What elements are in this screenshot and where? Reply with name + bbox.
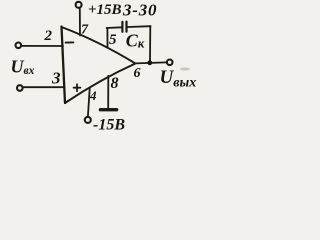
minus sign inverting input (66, 41, 74, 43)
ground bar (100, 108, 116, 111)
wire output pin 6 (135, 62, 166, 63)
op-amp U1 triangle top edge (62, 27, 136, 64)
svg-text:4: 4 (89, 88, 97, 103)
capacitor CK right leg to output (149, 26, 151, 62)
wire pin 4 to -15V (88, 89, 90, 117)
plus sign non-inverting input (74, 84, 81, 91)
terminal pin 2 (15, 43, 21, 49)
capacitor C1 plates (122, 22, 126, 32)
svg-text:8: 8 (111, 75, 119, 92)
op-amp U1 triangle left edge (62, 27, 66, 104)
capacitor CK top-right wire (128, 25, 151, 28)
svg-text:+15В: +15В (88, 2, 122, 18)
terminal -15V (85, 117, 91, 123)
capacitor CK top-left wire (107, 26, 122, 29)
terminal +15V (76, 2, 82, 8)
terminal pin 3 (17, 85, 23, 91)
wire pin 2 input (22, 45, 63, 47)
junction node at output (147, 60, 152, 65)
svg-text:6: 6 (134, 66, 141, 81)
svg-text:3-30: 3-30 (122, 1, 157, 20)
wire pin 3 input (23, 86, 64, 88)
svg-text:-15В: -15В (93, 116, 125, 132)
svg-text:7: 7 (81, 23, 89, 38)
svg-text:3: 3 (51, 69, 61, 88)
paper background (0, 0, 202, 132)
svg-text:5: 5 (109, 32, 117, 48)
terminal output (167, 60, 173, 66)
wire pin 8 to ground (107, 76, 109, 108)
op-amp U1 triangle bottom edge (65, 64, 135, 104)
wire pin 7 to +15V (79, 8, 81, 35)
svg-text:2: 2 (44, 28, 53, 44)
faint scan smudge (180, 67, 190, 70)
capacitor CK left leg (pin 5) (106, 28, 108, 47)
